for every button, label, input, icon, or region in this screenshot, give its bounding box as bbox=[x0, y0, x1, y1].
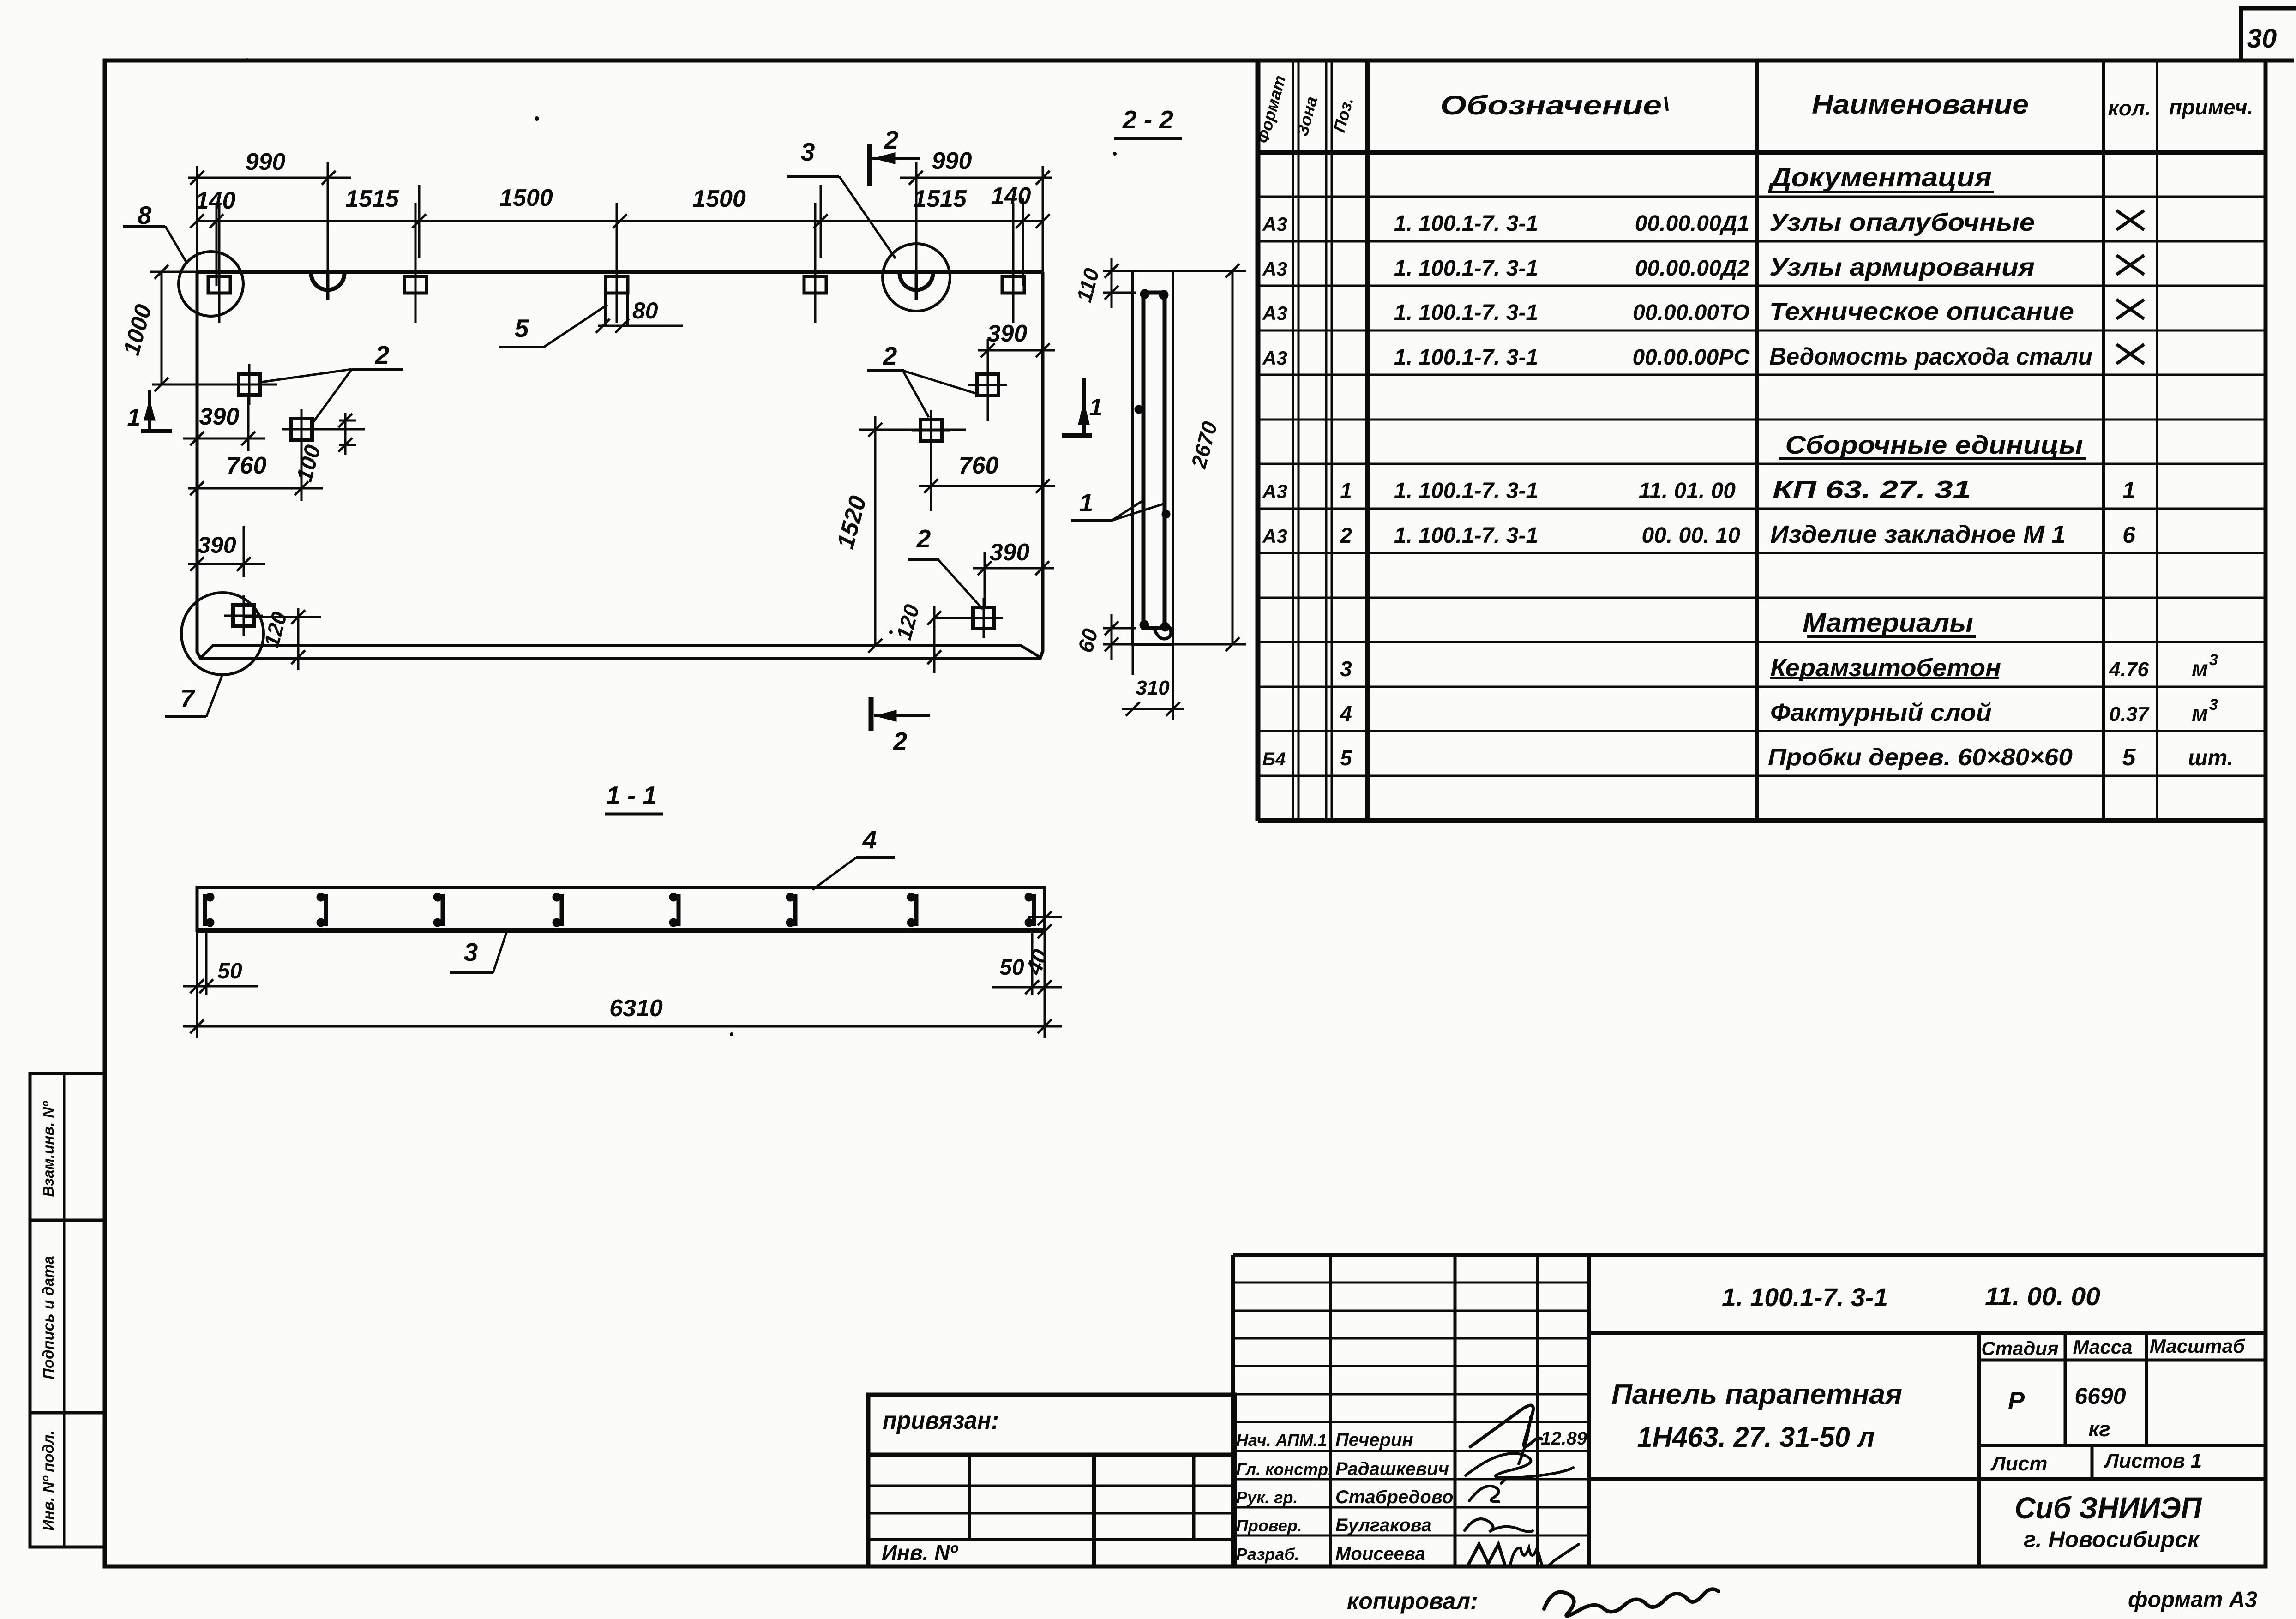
svg-text:3: 3 bbox=[2209, 651, 2218, 669]
svg-text:Взам.инв. Nº: Взам.инв. Nº bbox=[40, 1101, 57, 1197]
dimension 50 right section bbox=[1044, 930, 1046, 1038]
embedded anchor M1 at top x=2195 bbox=[1002, 276, 1024, 293]
svg-text:Рук. гр.: Рук. гр. bbox=[1236, 1488, 1298, 1507]
section 2-2 outline bbox=[1133, 271, 1173, 644]
svg-text:2: 2 bbox=[916, 524, 931, 553]
svg-text:Изделие закладное М 1: Изделие закладное М 1 bbox=[1770, 521, 2066, 548]
svg-text:12.89: 12.89 bbox=[1541, 1428, 1587, 1449]
embedded anchor right bottom bbox=[973, 607, 994, 629]
signature squiggle Рук.гр. bbox=[1469, 1486, 1499, 1502]
svg-text:1. 100.1-7. 3-1: 1. 100.1-7. 3-1 bbox=[1394, 345, 1538, 370]
svg-text:3: 3 bbox=[1340, 657, 1352, 681]
svg-text:Инв. Nº подл.: Инв. Nº подл. bbox=[40, 1430, 57, 1530]
dimension 1000 left bbox=[161, 272, 163, 384]
stirrup in section 1-1 x=1217 bbox=[560, 894, 564, 926]
dimension 110 section bbox=[1103, 270, 1136, 272]
svg-text:А3: А3 bbox=[1262, 213, 1287, 235]
svg-text:А3: А3 bbox=[1262, 258, 1287, 280]
svg-text:7: 7 bbox=[180, 684, 196, 713]
svg-text:Сиб ЗНИИЭП: Сиб ЗНИИЭП bbox=[2015, 1491, 2202, 1525]
stirrup in section 1-1 x=444 bbox=[203, 894, 207, 926]
detail circle 3 bbox=[883, 244, 950, 311]
section cut mark 2 top bbox=[867, 144, 872, 186]
detail circle 8 bbox=[179, 252, 243, 316]
svg-text:копировал:: копировал: bbox=[1347, 1588, 1478, 1614]
svg-text:Сборочные единицы: Сборочные единицы bbox=[1785, 430, 2083, 459]
dimension 990 left bbox=[188, 177, 351, 179]
section 2-2 rebar cage bbox=[1143, 293, 1165, 628]
title block outline bbox=[1233, 1253, 2266, 1257]
svg-text:1515: 1515 bbox=[345, 186, 399, 212]
svg-text:Моисеева: Моисеева bbox=[1335, 1544, 1425, 1564]
panel edge extension lines bbox=[196, 166, 198, 272]
svg-text:Масштаб: Масштаб bbox=[2150, 1335, 2245, 1357]
svg-text:2: 2 bbox=[893, 727, 908, 756]
section 1-1 bar outline bbox=[197, 887, 1045, 930]
dimension 760 right bbox=[919, 485, 1055, 487]
svg-text:2: 2 bbox=[1340, 523, 1352, 547]
svg-text:1: 1 bbox=[1089, 394, 1103, 421]
svg-text:А3: А3 bbox=[1262, 480, 1287, 502]
svg-text:00.00.00РС: 00.00.00РС bbox=[1632, 345, 1750, 370]
stirrup in section 1-1 x=1470 bbox=[677, 894, 681, 926]
signature squiggle Нач.АПМ.1 bbox=[1470, 1405, 1542, 1447]
svg-text:11. 01. 00: 11. 01. 00 bbox=[1639, 479, 1736, 503]
svg-text:м: м bbox=[2192, 702, 2208, 726]
signature table row lines bbox=[1233, 1282, 1589, 1284]
dimension 990 right bbox=[900, 177, 1052, 179]
dimension 1520 right bbox=[874, 416, 877, 646]
svg-text:Булгакова: Булгакова bbox=[1335, 1515, 1432, 1535]
spec header quote mark bbox=[1665, 97, 1667, 111]
svg-text:6690: 6690 bbox=[2074, 1383, 2126, 1409]
svg-text:0.37: 0.37 bbox=[2109, 703, 2150, 726]
svg-text:390: 390 bbox=[198, 532, 236, 558]
stirrup in section 1-1 x=2240 bbox=[1032, 894, 1036, 926]
svg-text:1500: 1500 bbox=[692, 186, 746, 212]
dimension 80 at plug bbox=[598, 325, 683, 327]
svg-text:А3: А3 bbox=[1262, 347, 1287, 369]
svg-text:6310: 6310 bbox=[609, 995, 663, 1022]
svg-text:140: 140 bbox=[991, 183, 1031, 210]
svg-text:2: 2 bbox=[375, 341, 390, 369]
svg-text:Стабредово: Стабредово bbox=[1335, 1487, 1453, 1507]
svg-text:Разраб.: Разраб. bbox=[1236, 1545, 1299, 1564]
embedded anchor left row1 bbox=[239, 374, 260, 395]
svg-text:990: 990 bbox=[246, 149, 286, 175]
signature squiggle Разраб. bbox=[1468, 1544, 1505, 1565]
svg-text:Инв. Nº: Инв. Nº bbox=[882, 1541, 958, 1565]
svg-text:1500: 1500 bbox=[499, 185, 553, 211]
svg-text:м: м bbox=[2192, 657, 2208, 681]
svg-text:кг: кг bbox=[2088, 1417, 2110, 1441]
svg-text:1: 1 bbox=[127, 404, 141, 431]
svg-text:390: 390 bbox=[199, 403, 240, 430]
scan speck d bbox=[605, 813, 660, 814]
svg-text:11. 00. 00: 11. 00. 00 bbox=[1985, 1282, 2100, 1311]
svg-text:примеч.: примеч. bbox=[2169, 95, 2253, 119]
svg-text:1. 100.1-7. 3-1: 1. 100.1-7. 3-1 bbox=[1394, 523, 1538, 548]
svg-text:5: 5 bbox=[1340, 746, 1352, 770]
svg-text:Нач. АПМ.1: Нач. АПМ.1 bbox=[1236, 1431, 1327, 1450]
dimension 100 left bbox=[344, 413, 347, 455]
svg-text:2 - 2: 2 - 2 bbox=[1122, 105, 1173, 134]
svg-text:3: 3 bbox=[464, 938, 478, 966]
svg-text:Гл. констр.: Гл. констр. bbox=[1236, 1460, 1333, 1479]
svg-text:1. 100.1-7. 3-1: 1. 100.1-7. 3-1 bbox=[1394, 256, 1538, 281]
svg-text:Наименование: Наименование bbox=[1812, 90, 2029, 120]
svg-text:Обозначение: Обозначение bbox=[1440, 90, 1662, 120]
svg-text:4: 4 bbox=[862, 825, 877, 854]
svg-text:1: 1 bbox=[2122, 477, 2135, 503]
signature squiggle Провер. bbox=[1465, 1519, 1533, 1532]
svg-text:Подпись и дата: Подпись и дата bbox=[40, 1256, 57, 1379]
svg-text:1515: 1515 bbox=[913, 186, 967, 212]
svg-text:00.00.00Д2: 00.00.00Д2 bbox=[1635, 256, 1750, 281]
embedded anchor right row1 bbox=[977, 374, 998, 396]
dimension 120 left bottom bbox=[245, 616, 321, 618]
panel outline bbox=[197, 272, 1043, 659]
svg-text:Панель парапетная: Панель парапетная bbox=[1611, 1379, 1902, 1410]
embedded anchor left row2 bbox=[291, 419, 312, 440]
svg-text:Документация: Документация bbox=[1768, 162, 1992, 192]
dimension 40 right section bbox=[1038, 911, 1052, 925]
svg-text:Ведомость расхода стали: Ведомость расхода стали bbox=[1769, 343, 2092, 370]
embedded anchor M1 at top x=475 bbox=[208, 276, 230, 293]
dimension 390 upper left bbox=[183, 438, 265, 440]
svg-text:1. 100.1-7. 3-1: 1. 100.1-7. 3-1 bbox=[1394, 211, 1538, 236]
svg-text:760: 760 bbox=[227, 452, 267, 479]
embedded anchor left bottom bbox=[233, 605, 254, 626]
dimension 760 left bbox=[188, 487, 323, 490]
svg-text:1: 1 bbox=[1079, 488, 1094, 517]
top extension lines bbox=[216, 203, 218, 286]
svg-text:Фактурный слой: Фактурный слой bbox=[1770, 699, 1992, 726]
scan speck a bbox=[535, 116, 539, 121]
svg-text:Листов 1: Листов 1 bbox=[2104, 1450, 2202, 1472]
stamp row Лист Листов bbox=[1979, 1444, 2266, 1447]
svg-text:00.00.00Д1: 00.00.00Д1 bbox=[1635, 211, 1749, 236]
svg-text:390: 390 bbox=[990, 539, 1030, 566]
dimension 60 section bbox=[1103, 627, 1136, 630]
lifting loop right bbox=[900, 273, 933, 290]
svg-text:Узлы опалубочные: Узлы опалубочные bbox=[1769, 209, 2035, 236]
svg-text:4: 4 bbox=[1340, 702, 1352, 726]
signature flourish Радашкевич bbox=[1466, 1453, 1573, 1478]
section 1-1 facing layer line bbox=[1028, 916, 1062, 918]
привязан grid bbox=[866, 1455, 871, 1566]
svg-text:шт.: шт. bbox=[2188, 746, 2233, 770]
svg-text:4.76: 4.76 bbox=[2109, 658, 2149, 681]
panel bottom chamfer line bbox=[200, 646, 1041, 658]
svg-text:3: 3 bbox=[2209, 696, 2218, 714]
dimension 390 lower left bbox=[188, 563, 265, 565]
dimension 390 upper right bbox=[978, 349, 1055, 352]
stirrup in section 1-1 x=706 bbox=[324, 894, 328, 926]
svg-text:310: 310 bbox=[1136, 677, 1170, 699]
svg-text:КП 63. 27. 31: КП 63. 27. 31 bbox=[1773, 476, 1971, 504]
svg-text:Пробки дерев. 60×80×60: Пробки дерев. 60×80×60 bbox=[1768, 744, 2073, 771]
svg-text:50: 50 bbox=[217, 959, 242, 983]
stirrup in section 1-1 x=1985 bbox=[914, 894, 919, 926]
svg-text:кол.: кол. bbox=[2108, 96, 2151, 120]
svg-text:1. 100.1-7. 3-1: 1. 100.1-7. 3-1 bbox=[1394, 300, 1538, 325]
stirrup in section 1-1 x=1723 bbox=[793, 894, 798, 926]
svg-text:Стадия: Стадия bbox=[1981, 1337, 2058, 1359]
svg-text:1: 1 bbox=[1340, 479, 1352, 503]
wood plug item5 at top x=1336 bbox=[606, 276, 628, 293]
привязан box bbox=[868, 1395, 1235, 1455]
svg-text:2: 2 bbox=[883, 342, 897, 370]
svg-text:Провер.: Провер. bbox=[1236, 1516, 1302, 1535]
spec table grid verticals bbox=[1256, 60, 1261, 821]
svg-text:30: 30 bbox=[2247, 24, 2277, 54]
svg-text:Техническое описание: Техническое описание bbox=[1769, 298, 2074, 325]
top dimension line 140-1515-1500-1500-1515-140 bbox=[197, 220, 1043, 222]
svg-text:Радашкевич: Радашкевич bbox=[1335, 1459, 1449, 1479]
footer copier signature bbox=[1544, 1589, 1719, 1616]
svg-text:привязан:: привязан: bbox=[883, 1407, 999, 1434]
scan speck e bbox=[889, 630, 893, 634]
svg-text:6: 6 bbox=[2122, 522, 2136, 548]
svg-text:Р: Р bbox=[2008, 1387, 2025, 1415]
svg-text:Лист: Лист bbox=[1990, 1452, 2048, 1475]
section cut mark 1 left bbox=[141, 429, 172, 433]
svg-text:А3: А3 bbox=[1262, 302, 1287, 324]
svg-text:1Н463. 27. 31-50 л: 1Н463. 27. 31-50 л bbox=[1637, 1421, 1875, 1453]
embedded anchor right row2 bbox=[920, 420, 942, 441]
dimension 120 right bottom bbox=[934, 617, 974, 619]
section cut mark 2 bottom bbox=[869, 697, 874, 731]
embedded anchor M1 at top x=1766 bbox=[804, 276, 826, 293]
svg-text:Масса: Масса bbox=[2073, 1336, 2133, 1358]
svg-text:5: 5 bbox=[515, 314, 529, 342]
svg-text:1 - 1: 1 - 1 bbox=[606, 781, 657, 809]
svg-text:5: 5 bbox=[2122, 744, 2136, 771]
stirrup in section 1-1 x=959 bbox=[441, 894, 445, 926]
section cut mark 1 right bbox=[1062, 433, 1092, 438]
svg-text:А3: А3 bbox=[1262, 525, 1287, 547]
lifting loop left bbox=[311, 273, 344, 290]
dimension 50 left section bbox=[196, 930, 198, 1038]
svg-text:Узлы армирования: Узлы армирования bbox=[1769, 253, 2035, 281]
svg-text:80: 80 bbox=[632, 298, 658, 324]
stamp Стадия Масса Масштаб header bbox=[2064, 1333, 2067, 1445]
sheet number box 30 bbox=[2241, 8, 2296, 60]
scan speck c bbox=[1113, 152, 1117, 156]
svg-text:1. 100.1-7. 3-1: 1. 100.1-7. 3-1 bbox=[1722, 1283, 1888, 1312]
dimension 310 section bbox=[1122, 708, 1184, 710]
svg-text:Б4: Б4 bbox=[1262, 749, 1286, 769]
svg-text:Печерин: Печерин bbox=[1335, 1430, 1413, 1450]
svg-text:Материалы: Материалы bbox=[1803, 608, 1973, 638]
svg-text:1. 100.1-7. 3-1: 1. 100.1-7. 3-1 bbox=[1394, 479, 1538, 503]
svg-text:00. 00. 10: 00. 00. 10 bbox=[1641, 523, 1740, 548]
embedded anchor M1 at top x=900 bbox=[404, 276, 427, 293]
svg-text:г. Новосибирск: г. Новосибирск bbox=[2024, 1528, 2200, 1552]
svg-text:3: 3 bbox=[801, 138, 815, 166]
scan speck f bbox=[730, 1032, 733, 1036]
dimension 2670 section bbox=[1173, 270, 1246, 272]
svg-text:50: 50 bbox=[999, 955, 1024, 980]
title block name box rules bbox=[1589, 1331, 2266, 1335]
dimension 6310 section bbox=[183, 1025, 1062, 1028]
dimension 390 lower right bbox=[973, 567, 1054, 570]
svg-text:390: 390 bbox=[987, 320, 1028, 347]
svg-text:760: 760 bbox=[959, 452, 999, 479]
spec table grid horizontals bbox=[1258, 150, 2266, 155]
svg-text:формат А3: формат А3 bbox=[2128, 1588, 2257, 1612]
scan speck b bbox=[246, 58, 249, 62]
detail circle 7 bbox=[181, 593, 264, 675]
svg-text:00.00.00ТО: 00.00.00ТО bbox=[1633, 300, 1749, 325]
svg-text:990: 990 bbox=[932, 148, 972, 174]
svg-text:2: 2 bbox=[884, 126, 899, 154]
margin stamp table bbox=[30, 1073, 105, 1547]
